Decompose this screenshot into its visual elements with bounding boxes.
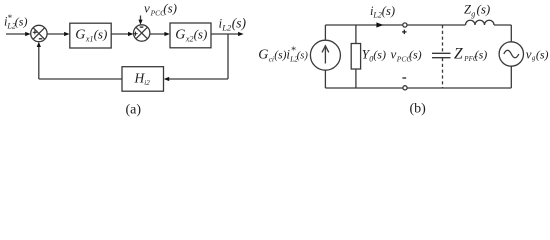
label Z_PFC(s) (454, 45, 487, 63)
svg-text:G: G (75, 28, 85, 43)
wire current source bottom (324, 70, 326, 88)
svg-text:ci: ci (269, 54, 274, 63)
block Gx1 (70, 23, 111, 48)
label i*_L2(s) input reference (4, 13, 27, 31)
svg-text:i2: i2 (144, 79, 150, 87)
wire Gx1 to summing junction S2 (111, 32, 133, 36)
top wire right section (494, 24, 511, 26)
svg-text:(s): (s) (94, 27, 108, 42)
svg-text:x2: x2 (185, 34, 194, 43)
svg-text:(s): (s) (163, 1, 177, 16)
label v_PCC(s) disturbance (144, 1, 177, 18)
svg-text:(s): (s) (536, 47, 549, 61)
capacitor Z_PFC plates (432, 53, 451, 57)
admittance box Y0 (351, 44, 360, 70)
svg-text:(s): (s) (409, 48, 422, 62)
admittance Y0 branch wires (355, 25, 357, 44)
summing junction S1 (31, 25, 47, 41)
wire current source top (324, 25, 326, 40)
wire input arrow into summing junction S1 (6, 32, 31, 36)
svg-text:(s): (s) (477, 2, 491, 17)
svg-text:G: G (175, 28, 185, 43)
summing junction S2 (133, 25, 150, 41)
wire v_PCC arrow down into S2 (138, 16, 142, 25)
feedback wire into H block (164, 77, 228, 81)
svg-text:v: v (144, 1, 150, 16)
label G_ci(s)i*_L2(s) (258, 45, 308, 63)
svg-text:(s): (s) (382, 4, 395, 18)
top wire left section (325, 24, 403, 26)
svg-text:(s): (s) (274, 50, 286, 62)
svg-text:x1: x1 (85, 34, 94, 43)
svg-text:L2: L2 (221, 22, 232, 32)
label i_L2(s) top (370, 4, 395, 20)
node pickoff wire down (227, 34, 229, 79)
dashed branch wire lower (442, 58, 444, 88)
inductor Z_g coil (466, 20, 495, 25)
label v_g(s) (526, 46, 549, 62)
current direction arrow i_L2 (376, 22, 383, 27)
svg-text:v: v (526, 46, 532, 61)
block Gx2 (170, 23, 211, 48)
output wire with arrow (211, 32, 244, 36)
top wire middle section (407, 24, 466, 26)
feedback wire up arrow into S1 (37, 42, 41, 79)
svg-text:(s): (s) (15, 15, 28, 29)
svg-text:G: G (258, 48, 268, 63)
label v_PCC(s) node voltage (391, 47, 422, 64)
terminal node plus (402, 23, 407, 34)
svg-text:(s): (s) (297, 51, 309, 62)
dashed branch wire upper (442, 25, 444, 53)
svg-text:(s): (s) (373, 48, 386, 62)
AC source v_g wires (510, 25, 512, 42)
label Z_g(s) (464, 2, 490, 19)
bottom wire (325, 87, 403, 89)
terminal node minus (402, 78, 407, 90)
svg-text:(b): (b) (410, 102, 427, 117)
AC source v_g circle (499, 42, 523, 66)
current source U1 circle with arrow (310, 40, 340, 70)
svg-text:v: v (391, 47, 397, 62)
svg-text:g: g (471, 10, 475, 19)
svg-text:Z: Z (454, 45, 463, 62)
svg-text:(s): (s) (194, 27, 208, 42)
block H_i2 (122, 67, 164, 92)
svg-text:L2: L2 (372, 11, 381, 20)
label Y_0(s) (362, 47, 386, 64)
svg-text:(a): (a) (126, 103, 142, 118)
svg-text:(s): (s) (475, 47, 488, 61)
svg-text:(s): (s) (232, 16, 247, 31)
feedback wire H to below S1 (39, 78, 122, 80)
wire S2 to block Gx2 (150, 32, 170, 36)
wire S1 to block Gx1 (47, 32, 70, 36)
bottom wire right part (407, 87, 511, 89)
label i_L2(s) output current (219, 16, 247, 33)
